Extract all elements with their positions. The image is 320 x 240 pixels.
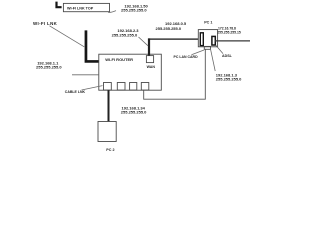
svg-text:255.255.255.0: 255.255.255.0: [121, 8, 147, 13]
wire WAN uplink horizontal: [148, 38, 198, 40]
router antenna elbow (thick wire): [85, 30, 99, 62]
PC1 wifi card (left slot): [200, 33, 203, 46]
svg-text:PC 1: PC 1: [204, 20, 212, 24]
LAN port 3: [130, 83, 137, 91]
svg-text:WI-FI ROUTER: WI-FI ROUTER: [105, 57, 133, 62]
svg-text:255.255.255.15: 255.255.255.15: [217, 30, 241, 34]
wire LAN4 to PC1 lan card: [144, 49, 206, 99]
svg-text:PC 2: PC 2: [106, 148, 114, 152]
PC1 lan card (bottom): [204, 46, 210, 49]
pointer 192.168.1.1 to router: [72, 74, 99, 76]
WAN port: [146, 56, 153, 63]
PC2 box: [98, 122, 116, 142]
router box U2: [99, 54, 162, 90]
svg-text:WAN: WAN: [147, 65, 156, 69]
pointer from IP label to AP box: [108, 11, 116, 13]
PC1 adsl card (right slot): [212, 36, 215, 45]
svg-text:PC LAN CARD: PC LAN CARD: [174, 55, 199, 59]
wire WAN uplink vertical: [148, 38, 150, 55]
svg-text:CABLE LNK: CABLE LNK: [65, 90, 86, 94]
pointer PC LAN CARD to lan card: [192, 50, 205, 55]
svg-text:ADSL: ADSL: [222, 54, 233, 58]
svg-text:255.255.255.0: 255.255.255.0: [216, 77, 242, 82]
wire LAN1 to PC2: [108, 90, 110, 121]
svg-text:WI-FI LNK TOP: WI-FI LNK TOP: [67, 6, 94, 10]
wifi AP box U1: [63, 3, 109, 11]
pointer to WAN wire: [139, 37, 149, 46]
AP antenna stub (thick L): [55, 2, 61, 9]
svg-text:255.255.255.0: 255.255.255.0: [156, 26, 182, 31]
wifi link pointer wire: [50, 26, 85, 47]
pointer 192.168.1.3 to lan card: [210, 49, 215, 71]
svg-text:255.255.255.0: 255.255.255.0: [36, 64, 62, 69]
svg-text:255.255.255.0: 255.255.255.0: [121, 109, 147, 114]
pointer ADSL to adsl card: [216, 45, 223, 53]
wire PC1 to internet: [215, 40, 251, 42]
pointer CABLE LNK to cable: [82, 86, 103, 90]
LAN port 2: [117, 83, 125, 91]
svg-text:255.255.255.0: 255.255.255.0: [112, 32, 138, 37]
svg-text:WI-FI LNK: WI-FI LNK: [33, 21, 58, 26]
PC1 box: [198, 30, 217, 47]
LAN port 4: [141, 83, 149, 91]
LAN port 1: [104, 83, 112, 91]
